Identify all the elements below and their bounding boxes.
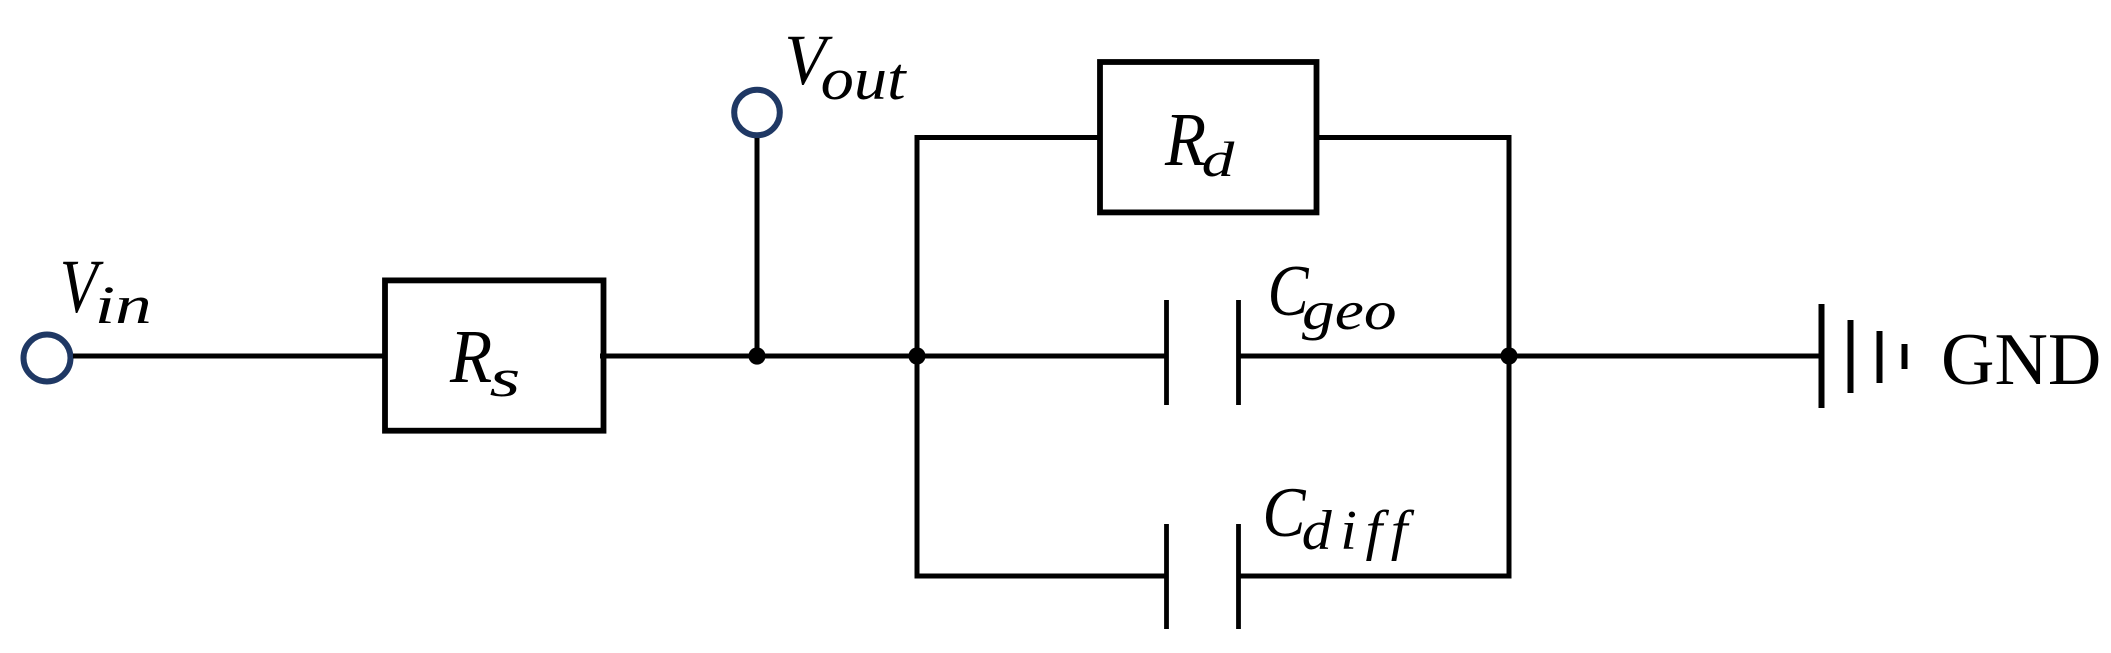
label Rs [449, 314, 520, 408]
wire bottom left [915, 574, 1167, 579]
wire right node to ground [1509, 354, 1821, 359]
wire middle right [1238, 354, 1509, 359]
svg-text:s: s [490, 348, 521, 408]
wire Vin to Rs [73, 354, 388, 359]
wire top left [915, 135, 1101, 140]
capacitor Cdiff [1167, 524, 1239, 629]
junction right node [1500, 347, 1517, 364]
svg-text:R: R [1164, 97, 1206, 182]
resistor Rs [385, 280, 604, 430]
wire Rs to Vout node [600, 354, 757, 359]
wire bottom right [1238, 574, 1512, 579]
label Vin [60, 245, 152, 335]
terminal Vout [734, 90, 780, 136]
wire Vout node to branch node [757, 354, 917, 359]
label Rd [1164, 97, 1235, 187]
svg-text:out: out [821, 46, 907, 112]
wire middle left [917, 354, 1166, 359]
wire branch node down [915, 356, 920, 579]
svg-text:C: C [1262, 472, 1306, 551]
terminal Vin [24, 335, 71, 382]
wire top right down [1507, 135, 1512, 356]
svg-text:in: in [95, 275, 152, 335]
svg-text:R: R [449, 314, 492, 399]
svg-text:diff: diff [1302, 499, 1416, 562]
label Cdiff [1262, 472, 1416, 561]
wire Vout stub [755, 138, 760, 356]
svg-text:d: d [1202, 131, 1236, 187]
resistor Rd [1100, 62, 1317, 212]
ground [1822, 304, 1905, 408]
junction branch node [908, 347, 925, 364]
junction Vout node [748, 347, 765, 364]
svg-text:geo: geo [1302, 281, 1397, 342]
label Vout [784, 20, 907, 112]
label Cgeo [1268, 250, 1397, 342]
capacitor Cgeo [1167, 300, 1239, 405]
wire right down [1507, 356, 1512, 579]
wire branch node up [915, 135, 920, 356]
wire top right [1314, 135, 1512, 140]
svg-text:GND: GND [1941, 319, 2101, 401]
